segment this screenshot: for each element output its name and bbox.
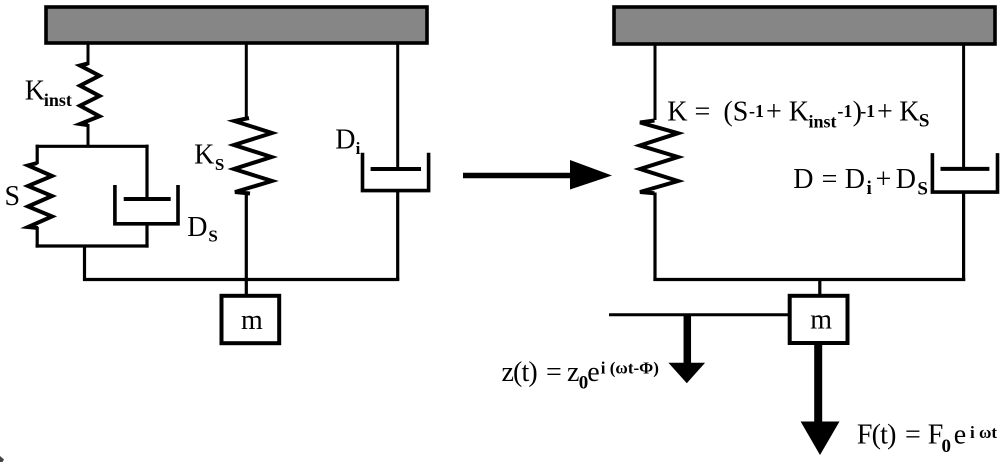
wire: parallel box top edge bbox=[36, 145, 149, 148]
wire: left bottom rail bbox=[83, 278, 399, 281]
wire: right wall to damper D bbox=[962, 44, 965, 169]
svg-text:D=Di+DS: D=Di+DS bbox=[793, 164, 928, 200]
wire: box bottom stub down bbox=[83, 246, 86, 281]
arrow: transformation (left to right) bbox=[463, 160, 612, 190]
spring S bbox=[28, 163, 52, 228]
wire: spring Kinst to parallel box bbox=[87, 124, 90, 146]
damper Di bbox=[363, 153, 429, 191]
damper D bbox=[932, 153, 997, 192]
arrow F(t) bbox=[801, 345, 840, 455]
mass m (left) bbox=[222, 296, 280, 343]
wire: parallel box left edge upper bbox=[36, 145, 39, 164]
svg-text:S: S bbox=[5, 181, 21, 212]
wire: spring Ks to mass bbox=[245, 192, 248, 297]
wall: right fixed support bbox=[614, 7, 995, 44]
wall: left fixed support bbox=[46, 7, 427, 43]
wire: parallel box right edge / damper Ds rod bbox=[145, 145, 148, 199]
svg-text:m: m bbox=[241, 305, 263, 336]
damper Ds bbox=[115, 185, 178, 248]
wire: damper Di to rail bbox=[396, 191, 399, 280]
mass m (right) bbox=[790, 296, 848, 343]
wire: z reference line bbox=[609, 313, 791, 316]
spring Ks bbox=[234, 118, 272, 194]
wire: rail stub to right mass bbox=[818, 280, 821, 298]
spring Kinst bbox=[80, 64, 100, 126]
svg-text:m: m bbox=[810, 305, 832, 336]
corner smudge bottom-left bbox=[0, 456, 4, 462]
svg-text:K=(S-1+Kinst-1)-1+KS: K=(S-1+Kinst-1)-1+KS bbox=[667, 96, 929, 131]
wire: spring K to right rail bbox=[653, 193, 656, 282]
wire: right bottom rail bbox=[653, 278, 965, 281]
wire: right wall to spring K bbox=[654, 44, 657, 120]
wire: wall to spring Kinst bbox=[87, 43, 90, 65]
wire: parallel box left edge lower bbox=[36, 227, 39, 248]
wire: wall to damper Di bbox=[396, 43, 399, 169]
wire: parallel box bottom edge bbox=[36, 244, 149, 247]
wire: damper D to rail bbox=[962, 192, 965, 281]
spring K bbox=[640, 121, 678, 194]
arrow z(t) bbox=[668, 315, 705, 384]
wire: wall to spring Ks bbox=[245, 43, 248, 120]
